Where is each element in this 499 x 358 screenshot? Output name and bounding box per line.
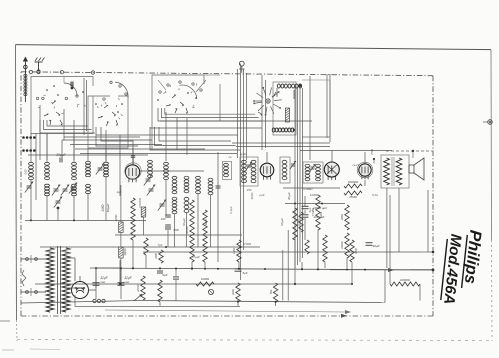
- svg-text:4700: 4700: [370, 149, 374, 155]
- svg-text:10000 µµF: 10000 µµF: [313, 206, 327, 210]
- label 2M: [101, 204, 110, 213]
- HT bus: [90, 267, 434, 271]
- heater wiring: [75, 268, 120, 307]
- oscillator band switch S4: [253, 87, 282, 116]
- component value labels: [117, 152, 378, 259]
- resistor R18 20000: [340, 233, 349, 258]
- scan artifact: [0, 321, 60, 350]
- resistor R15 50000: [344, 180, 362, 188]
- output transformer T3: [381, 155, 409, 188]
- svg-text:1MΩ: 1MΩ: [319, 211, 323, 218]
- resistor R1 220ohm: [114, 185, 127, 284]
- coil L12: [184, 176, 189, 212]
- coil L10: [164, 162, 169, 179]
- cap 100uuF: [161, 215, 171, 227]
- svg-text:µµF: µµF: [260, 193, 265, 197]
- resistor R10 500: [269, 283, 278, 302]
- trimmer C7: [144, 175, 152, 186]
- svg-text:50µµF: 50µµF: [106, 204, 110, 213]
- resistor R14: [323, 235, 327, 262]
- band switch section S1: [31, 77, 93, 134]
- svg-text:0.5M: 0.5M: [354, 247, 358, 254]
- band switch section S3: [152, 75, 220, 150]
- coil L2: [45, 162, 50, 195]
- wiring verticals (left): [31, 133, 133, 200]
- chassis ground boundary (dash-dot): [21, 72, 433, 316]
- svg-text:0.05: 0.05: [24, 169, 28, 175]
- svg-text:10000Ω: 10000Ω: [400, 278, 411, 282]
- svg-text:500: 500: [269, 289, 273, 294]
- svg-text:10000Ω: 10000Ω: [138, 197, 142, 208]
- resistor R5: [158, 280, 162, 302]
- resistor R4 10000: [136, 276, 145, 300]
- title Mod.456A: [440, 233, 464, 305]
- resistor R22 2200: [155, 250, 163, 263]
- cap C15 30uF: [366, 243, 380, 248]
- oscillator coils L7 L8: [272, 82, 301, 135]
- svg-text:30000: 30000: [123, 248, 127, 256]
- resistor R2: [131, 198, 135, 240]
- resistor R6 50000: [185, 200, 194, 262]
- osc padder C10: [216, 186, 221, 188]
- speaker boundary: [386, 150, 433, 158]
- svg-text:0.5MΩ: 0.5MΩ: [304, 187, 314, 191]
- wiring verticals (top): [238, 64, 331, 280]
- cathode bus: [35, 283, 352, 285]
- resistor R19 0.5M: [350, 240, 358, 262]
- tube V1 (octode mixer): [125, 158, 141, 182]
- IF transformer T2: [303, 162, 323, 183]
- switch wiper marks: [38, 83, 196, 119]
- tube V2 (IF amplifier): [260, 163, 274, 180]
- svg-text:0.2A: 0.2A: [372, 193, 378, 197]
- svg-text:0.1µF: 0.1µF: [296, 218, 300, 225]
- svg-text:40µµF: 40µµF: [287, 192, 291, 200]
- trimmer C1: [25, 182, 33, 193]
- svg-text:6µF: 6µF: [162, 273, 167, 277]
- svg-text:2200: 2200: [155, 253, 158, 260]
- detector wiring: [283, 188, 345, 240]
- resistor R20 10000: [390, 278, 420, 286]
- coil L15: [223, 162, 232, 180]
- svg-text:1000Ω: 1000Ω: [201, 277, 209, 281]
- trimmer C5: [96, 164, 104, 175]
- svg-text:0.1µF: 0.1µF: [229, 206, 233, 213]
- wiring right side: [390, 195, 434, 284]
- cap 30uuF: [56, 153, 67, 163]
- grid cap wiring: [131, 150, 365, 164]
- resistor R16 25M: [344, 191, 362, 199]
- svg-text:max.: max.: [100, 281, 106, 284]
- svg-text:1MΩ: 1MΩ: [232, 247, 236, 254]
- bus arrows: [341, 268, 394, 318]
- svg-text:0.5MΩ: 0.5MΩ: [243, 242, 252, 246]
- dial lamp: [93, 289, 214, 302]
- band switch section S2: [88, 81, 128, 148]
- coil L1 label: [24, 169, 28, 175]
- resistor R21 1000: [196, 277, 214, 286]
- svg-text:ca: ca: [229, 155, 232, 159]
- trimmer C2: [52, 185, 60, 196]
- cap C14 10000uuF: [302, 206, 328, 219]
- label 0.5Mohm: [304, 187, 314, 191]
- resistor 4700 label: [370, 149, 375, 164]
- svg-text:250: 250: [246, 188, 252, 192]
- label 32uF: [100, 276, 109, 284]
- trimmer C9: [158, 200, 166, 211]
- trimmer C8: [147, 185, 155, 196]
- trimmer C3: [61, 185, 69, 196]
- antenna terminal: [23, 57, 28, 103]
- label 32uF b: [124, 276, 133, 284]
- svg-text:300Ω: 300Ω: [250, 192, 254, 200]
- svg-text:30µF: 30µF: [373, 244, 380, 248]
- svg-text:5µF: 5µF: [308, 207, 312, 212]
- tube V4 (output): [357, 162, 373, 179]
- wiring under S1: [40, 105, 95, 160]
- svg-text:6.8MΩ: 6.8MΩ: [310, 193, 319, 197]
- dial cord line: [105, 310, 351, 314]
- heater bus: [75, 306, 240, 308]
- IF transformer T1: [240, 157, 258, 186]
- resistor R9 2200: [231, 283, 240, 302]
- earth ground terminal: [35, 58, 45, 74]
- terminal strips: [22, 136, 35, 152]
- svg-text:32µF: 32µF: [100, 276, 109, 280]
- coil L1: [29, 162, 34, 179]
- resistor R11: [293, 208, 297, 240]
- wiring S1-S2: [84, 78, 87, 135]
- coil L3: [72, 162, 77, 195]
- cap C16 32uF: [93, 268, 125, 299]
- svg-text:max.: max.: [124, 281, 130, 284]
- IF shield outline: [302, 80, 330, 137]
- svg-text:6800: 6800: [204, 218, 208, 225]
- loudspeaker: [409, 158, 424, 180]
- svg-text:7000: 7000: [173, 228, 179, 232]
- ground bus: [21, 270, 385, 303]
- coil L4: [86, 161, 91, 193]
- cap C12 7000uuF: [165, 227, 179, 232]
- svg-text:7µF: 7µF: [158, 243, 163, 247]
- svg-text:100: 100: [161, 217, 166, 221]
- svg-text:50µµF: 50µµF: [182, 218, 186, 226]
- rectifier tube V5: [72, 276, 97, 299]
- svg-text:8µF: 8µF: [243, 271, 248, 275]
- tube V3 (detector): [324, 162, 339, 180]
- power transformer T4: [46, 246, 70, 314]
- wiring under S3: [150, 108, 262, 161]
- wiring verticals (bottom): [120, 180, 428, 306]
- junction dots: [30, 203, 366, 286]
- IF coil L16: [280, 157, 296, 183]
- mains input and switch: [21, 255, 46, 296]
- svg-text:47µµF: 47µµF: [192, 255, 200, 259]
- wiring horizontals (mid): [62, 121, 392, 154]
- coil L11: [172, 176, 177, 213]
- chassis terminals: [29, 70, 95, 74]
- wire HT feed: [115, 234, 242, 236]
- wiring verticals (coil stubs): [28, 152, 218, 262]
- frame edge terminal: [483, 120, 492, 125]
- svg-text:10000: 10000: [136, 284, 140, 292]
- rectifier wiring: [66, 258, 96, 288]
- coil L9: [148, 160, 153, 177]
- wiring horizontals (lower mid): [25, 221, 433, 270]
- padder C6: [54, 197, 62, 210]
- trimmer C4: [69, 183, 77, 194]
- resistor R3: [141, 207, 148, 255]
- resistor R8 1M: [232, 240, 241, 262]
- svg-text:52µµF: 52µµF: [280, 218, 284, 226]
- svg-text:1µF: 1µF: [117, 190, 122, 194]
- coil L14: [208, 178, 213, 194]
- coil L13: [196, 176, 201, 193]
- svg-text:2MΩ: 2MΩ: [101, 204, 105, 212]
- title Philips: [461, 229, 485, 288]
- svg-text:20000: 20000: [340, 241, 344, 250]
- coil L5: [104, 162, 109, 177]
- cap C13 8uF: [235, 269, 248, 275]
- svg-text:50000Ω: 50000Ω: [348, 180, 359, 184]
- svg-text:4µµF: 4µµF: [240, 152, 247, 156]
- resistor R13 0.5M: [311, 195, 320, 230]
- pick-up jack: [239, 61, 245, 73]
- cap C11: [157, 271, 163, 273]
- resistor R17 2M: [340, 205, 349, 230]
- svg-text:32µF: 32µF: [124, 276, 133, 280]
- resistor R7: [203, 210, 207, 262]
- svg-text:2200: 2200: [231, 289, 235, 296]
- wiring under S2: [96, 127, 138, 196]
- svg-text:220Ω: 220Ω: [114, 214, 118, 223]
- svg-text:ca 2V: ca 2V: [352, 163, 360, 167]
- svg-text:2MΩ: 2MΩ: [340, 213, 344, 221]
- cap 6uF: [162, 268, 179, 301]
- svg-text:25MΩ: 25MΩ: [348, 195, 357, 199]
- resistor R12: [299, 212, 309, 254]
